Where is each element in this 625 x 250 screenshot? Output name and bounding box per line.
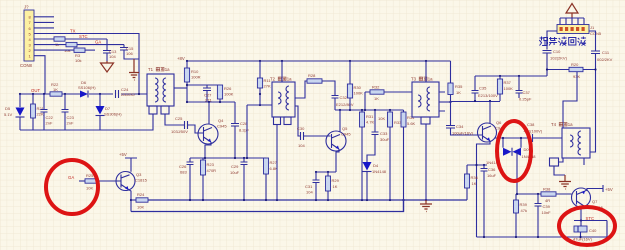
capacitor C32 E212/80V xyxy=(332,96,339,99)
svg-text:16uF: 16uF xyxy=(487,173,497,178)
capacitor C27 271 xyxy=(206,85,208,88)
svg-text:T4: T4 xyxy=(551,122,557,127)
wire diode feed right xyxy=(520,138,522,148)
wire Q5 emitter xyxy=(336,149,339,172)
capacitor C23 2nF xyxy=(64,94,66,109)
transistor Q5 C945 xyxy=(326,126,351,151)
resistor R35 1K xyxy=(450,61,452,85)
capacitor C10 102/2KV xyxy=(543,51,552,54)
svg-text:C37: C37 xyxy=(523,90,531,95)
wire emitter node y158 xyxy=(190,157,266,159)
svg-text:1K: 1K xyxy=(472,181,477,186)
wire pin6 stub xyxy=(34,27,54,29)
wire AGC bottom line xyxy=(451,101,501,103)
svg-text:GA: GA xyxy=(95,40,101,45)
wire OUT rail xyxy=(20,93,147,95)
power +5V (Q7) xyxy=(585,185,603,192)
svg-text:C30: C30 xyxy=(297,126,305,131)
svg-text:Q5: Q5 xyxy=(342,126,348,131)
svg-text:R29: R29 xyxy=(332,178,340,183)
svg-text:2nF: 2nF xyxy=(67,121,74,126)
wire bias node y85 xyxy=(187,84,220,86)
resistor R2 10k xyxy=(66,42,77,46)
svg-text:C945: C945 xyxy=(217,124,227,129)
svg-text:T3: T3 xyxy=(411,77,417,82)
svg-text:R21: R21 xyxy=(37,106,45,111)
capacitor C30 104 xyxy=(301,132,304,140)
svg-text:D5: D5 xyxy=(5,106,11,111)
resistor R36 1K xyxy=(466,165,468,174)
svg-text:104: 104 xyxy=(109,54,116,59)
svg-text:C10: C10 xyxy=(553,49,561,54)
svg-text:R26: R26 xyxy=(224,86,232,91)
wire Q4 emitter down xyxy=(205,142,211,158)
wire diode feed left xyxy=(502,138,504,148)
svg-text:C35: C35 xyxy=(479,86,487,91)
svg-text:C31: C31 xyxy=(305,184,313,189)
wire T3 top to rail xyxy=(425,61,427,82)
wire AGC top line y76 xyxy=(475,75,547,77)
svg-text:002/2KV: 002/2KV xyxy=(597,57,613,62)
capacitor C34 100uF/16V xyxy=(446,126,455,129)
svg-text:GA: GA xyxy=(68,175,74,180)
wire T2 lower tap to C30 xyxy=(295,106,300,136)
capacitor C15 106 xyxy=(123,45,125,47)
svg-text:R23: R23 xyxy=(207,162,215,167)
svg-text:STC: STC xyxy=(79,34,88,39)
transformer T4 xyxy=(550,122,591,166)
svg-text:R37: R37 xyxy=(504,80,512,85)
svg-text:47k: 47k xyxy=(521,208,527,213)
ground (hollow arrow) xyxy=(101,61,114,72)
resistor R26 100K xyxy=(217,85,222,99)
svg-text:1a: 1a xyxy=(165,67,170,72)
resistor R28 xyxy=(307,79,322,83)
wire ground bus 1 xyxy=(148,199,467,201)
wire GA to R25 xyxy=(79,180,85,182)
capacitor C31 104 xyxy=(315,172,317,180)
resistor R11 27K xyxy=(259,61,261,78)
transistor Q6 C945 xyxy=(478,120,506,142)
svg-text:1a: 1a xyxy=(568,122,573,127)
resistor R24 10K xyxy=(131,199,136,201)
resistor R22 1K xyxy=(50,92,62,96)
svg-text:R24: R24 xyxy=(137,192,145,197)
transistor Q3 C1815 xyxy=(116,172,148,191)
svg-text:100uF(16V): 100uF(16V) xyxy=(452,131,474,136)
wire pin3 GA net xyxy=(34,44,124,46)
svg-text:T2: T2 xyxy=(270,77,276,82)
wire collector node y110 xyxy=(335,109,404,111)
wire pin2 xyxy=(34,49,74,51)
svg-text:100K: 100K xyxy=(354,91,364,96)
svg-text:CON8: CON8 xyxy=(20,63,33,68)
wire Q6 emitter down-left xyxy=(477,141,491,237)
svg-text:Q7: Q7 xyxy=(592,199,598,204)
wire +8V rail xyxy=(187,60,451,62)
wire R25 to Q3 base xyxy=(97,180,121,182)
connector J1 CON5 xyxy=(557,25,602,37)
svg-text:+5V: +5V xyxy=(605,187,613,192)
svg-text:1K: 1K xyxy=(53,87,58,92)
transformer T2 xyxy=(270,77,295,125)
wire Q7 emitter / STC net xyxy=(581,206,584,221)
svg-text:C22: C22 xyxy=(46,115,54,120)
wire T2 pin to bus1 xyxy=(276,125,278,201)
annotation ellipse (detector diodes) xyxy=(497,121,531,181)
resistor R21 22K xyxy=(32,94,34,104)
wire bottom return line xyxy=(477,236,608,238)
svg-text:TX: TX xyxy=(70,29,76,34)
wire T2 left feed line xyxy=(247,105,272,158)
wire pin5 TX net xyxy=(34,34,139,95)
capacitor C36 16uF xyxy=(483,165,485,168)
svg-text:C23: C23 xyxy=(67,115,75,120)
svg-text:C1815: C1815 xyxy=(135,178,148,183)
svg-text:C32: C32 xyxy=(340,95,348,100)
resistor R20 93K xyxy=(547,69,596,71)
svg-text:R32: R32 xyxy=(372,85,380,90)
wire T4 secondary stub xyxy=(583,158,585,165)
transformer T3 xyxy=(411,77,439,125)
svg-text:10nF: 10nF xyxy=(542,210,552,215)
svg-text:R39: R39 xyxy=(520,202,528,207)
svg-text:C11: C11 xyxy=(602,50,610,55)
svg-text:C34: C34 xyxy=(456,124,464,129)
wire echo header pins xyxy=(560,18,584,25)
svg-text:102(2KV): 102(2KV) xyxy=(550,56,568,61)
svg-text:SS306(H): SS306(H) xyxy=(104,112,122,117)
transformer T1 xyxy=(147,67,174,114)
capacitor C11 002/2KV xyxy=(591,51,600,54)
annotation ellipse (STC output) xyxy=(559,207,615,245)
ground (bars on bus1) xyxy=(420,200,432,212)
resistor R23 470R xyxy=(202,158,204,160)
svg-text:Q3: Q3 xyxy=(136,172,142,177)
svg-text:+5V: +5V xyxy=(119,152,127,157)
wire detector line xyxy=(495,137,530,139)
resistor R25 10K xyxy=(85,179,97,183)
svg-text:R30: R30 xyxy=(354,85,362,90)
capacitor C26 683 xyxy=(189,158,191,162)
capacitor C25 xyxy=(185,121,188,129)
resistor R27 6.8K xyxy=(264,158,269,174)
wire Q5 collector xyxy=(339,110,341,132)
diode D6 SS106(H) xyxy=(80,91,88,98)
diode D8 1N4148 xyxy=(503,148,512,156)
wire T4 left pin to pin box xyxy=(559,158,564,162)
resistor R37 100K xyxy=(499,76,501,79)
svg-text:470R: 470R xyxy=(207,168,217,173)
resistor R1 1k xyxy=(54,37,65,41)
svg-text:2nF: 2nF xyxy=(46,121,53,126)
svg-text:683: 683 xyxy=(180,170,187,175)
diode D7 SS306(H) xyxy=(99,94,101,106)
svg-text:103J/50V: 103J/50V xyxy=(171,129,188,134)
svg-text:27K: 27K xyxy=(264,84,271,89)
svg-text:C40: C40 xyxy=(589,228,597,233)
wire detector output down to base line xyxy=(517,152,572,194)
svg-text:10K: 10K xyxy=(86,186,93,191)
resistor R29 1K xyxy=(327,172,329,176)
wire STC node line xyxy=(574,221,607,238)
svg-text:30uF: 30uF xyxy=(380,137,390,142)
svg-text:J?: J? xyxy=(24,5,29,10)
wire collector node y102 xyxy=(187,101,235,103)
wire pin8 stub xyxy=(34,16,54,18)
svg-text:5.6K: 5.6K xyxy=(407,121,416,126)
connector J? CON8 xyxy=(20,5,34,69)
svg-text:8.2pF: 8.2pF xyxy=(239,128,250,133)
svg-text:1N4148: 1N4148 xyxy=(372,169,387,174)
svg-text:D4: D4 xyxy=(373,163,379,168)
svg-text:SS106(H): SS106(H) xyxy=(78,85,96,90)
diode D4 1N4148 xyxy=(363,162,372,171)
svg-text:R38: R38 xyxy=(543,187,551,192)
ground (bars T4) xyxy=(559,175,571,189)
resistor R32 1K xyxy=(365,92,370,110)
svg-text:104: 104 xyxy=(306,190,313,195)
resistor R33 10K xyxy=(389,110,391,112)
capacitor C28 8.2pF xyxy=(234,102,236,123)
svg-text:0.25pF: 0.25pF xyxy=(519,97,532,102)
svg-text:+8V: +8V xyxy=(177,56,185,61)
svg-text:E212/80V: E212/80V xyxy=(336,102,354,107)
svg-text:1a: 1a xyxy=(428,77,433,82)
wire Q3 emitter down xyxy=(129,190,132,212)
svg-text:C26: C26 xyxy=(179,164,187,169)
svg-text:C38: C38 xyxy=(527,122,535,127)
wire echo left leg xyxy=(547,31,557,50)
wire Q6 collector xyxy=(489,101,491,124)
wire T1 right lower to C25 xyxy=(165,114,184,125)
resistor R30 100K xyxy=(349,61,351,84)
svg-text:C25: C25 xyxy=(175,116,183,121)
wire ground bus 2 xyxy=(131,200,404,212)
svg-text:5.1V: 5.1V xyxy=(4,112,13,117)
svg-text:C36: C36 xyxy=(488,167,496,172)
svg-text:104: 104 xyxy=(298,143,305,148)
capacitor C35 E213/100V xyxy=(474,76,476,90)
annotation ellipse (GA node) xyxy=(46,160,98,214)
wire T2 right tap to R28 xyxy=(295,81,307,98)
capacitor C38 471/100V xyxy=(530,134,533,142)
svg-text:C945: C945 xyxy=(341,132,351,137)
svg-text:C33: C33 xyxy=(380,131,388,136)
capacitor C29 10uF xyxy=(243,158,245,162)
ground (bars) xyxy=(129,59,139,80)
svg-text:10uF: 10uF xyxy=(230,170,240,175)
svg-text:2A103J: 2A103J xyxy=(121,92,135,97)
resistor R10 100R xyxy=(186,61,188,68)
svg-text:C29: C29 xyxy=(231,164,239,169)
svg-text:D7: D7 xyxy=(105,106,111,111)
capacitor C33 30uF xyxy=(374,110,376,132)
diode D9 1N4148 xyxy=(513,148,522,156)
transistor Q7 C1815 xyxy=(572,188,604,210)
junction dots bus1 xyxy=(189,199,191,201)
wire emitter RC node y165 xyxy=(467,164,487,166)
capacitor C39 10nF xyxy=(537,194,539,203)
wire C25 to Q4 base xyxy=(188,125,204,133)
capacitor C40 47uF/16V xyxy=(580,221,582,227)
svg-text:R20: R20 xyxy=(571,62,579,67)
transistor Q4 C945 xyxy=(198,118,227,144)
wire echo to T4 primary xyxy=(563,72,577,128)
junction dots OUT rail xyxy=(19,93,21,95)
wire node y110 down to bus2 xyxy=(403,110,405,212)
capacitor C24 2A103J xyxy=(116,90,119,98)
svg-text:4.7K: 4.7K xyxy=(366,120,375,125)
svg-text:Q4: Q4 xyxy=(218,118,224,123)
wire T3 pin to bus1 xyxy=(425,124,427,200)
resistor R34 5.6K xyxy=(401,112,406,127)
svg-text:Q6: Q6 xyxy=(496,120,502,125)
svg-text:E213/100V: E213/100V xyxy=(478,93,498,98)
svg-text:106: 106 xyxy=(126,51,133,56)
wire echo right leg xyxy=(589,31,596,51)
svg-text:C39: C39 xyxy=(543,204,551,209)
svg-text:100K: 100K xyxy=(504,86,514,91)
wire pin4 xyxy=(34,38,107,40)
svg-text:100R: 100R xyxy=(191,75,201,80)
svg-text:4R: 4R xyxy=(545,198,550,203)
svg-text:1a: 1a xyxy=(287,77,292,82)
svg-text:10K: 10K xyxy=(378,116,385,121)
svg-text:1K: 1K xyxy=(456,90,461,95)
wire pin7 stub xyxy=(34,21,54,23)
svg-text:R10: R10 xyxy=(191,69,199,74)
wire T3 right tap xyxy=(439,101,451,103)
resistor R39 47k xyxy=(515,194,517,200)
wire pin1 xyxy=(34,56,45,94)
wire T1 right to R10 node xyxy=(174,87,187,89)
wire Q4 collector xyxy=(208,102,210,124)
wire R28 to C32 xyxy=(322,81,335,95)
capacitor C22 2nF xyxy=(43,94,45,109)
svg-text:OUT: OUT xyxy=(31,88,40,93)
svg-text:100K: 100K xyxy=(224,92,234,97)
capacitor C37 0.25pF xyxy=(518,76,520,90)
svg-text:10K: 10K xyxy=(137,205,144,210)
svg-text:R28: R28 xyxy=(308,73,316,78)
svg-text:R36: R36 xyxy=(471,175,479,180)
resistor R31 4.7K xyxy=(361,110,363,112)
resistor R3 10k xyxy=(74,48,85,52)
diode D5 5.1V zener xyxy=(19,94,21,107)
wire Q5 emitter node y172 xyxy=(316,171,336,173)
svg-text:R31: R31 xyxy=(366,114,374,119)
svg-text:R35: R35 xyxy=(455,84,463,89)
resistor R38 4R xyxy=(541,192,556,196)
wire bottom rail xyxy=(20,114,153,130)
svg-text:1K: 1K xyxy=(374,96,379,101)
svg-text:1K: 1K xyxy=(333,184,338,189)
svg-text:R27: R27 xyxy=(270,160,278,165)
label 超声波回波 xyxy=(539,37,586,46)
wire pin box to ground xyxy=(554,166,565,175)
power arrow (echo transducer) xyxy=(566,4,578,19)
wire T2 top to rail xyxy=(281,61,283,82)
svg-text:10k: 10k xyxy=(75,58,81,63)
svg-text:T1: T1 xyxy=(148,67,154,72)
capacitor C13 104 xyxy=(106,39,108,50)
